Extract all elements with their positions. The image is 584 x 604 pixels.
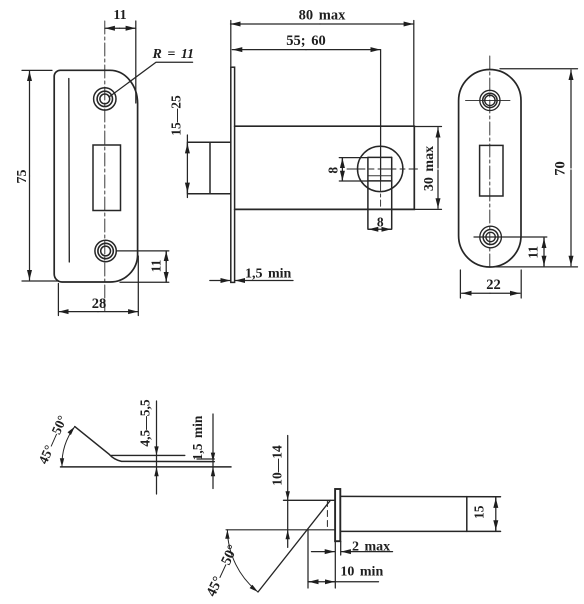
plate cutout	[93, 145, 121, 211]
VIEW C : face plate (right)	[459, 56, 578, 298]
face plate cross-section	[335, 489, 340, 541]
svg-text:2 max: 2 max	[352, 540, 390, 555]
dim 70	[496, 69, 578, 267]
svg-text:1,5 min: 1,5 min	[190, 415, 205, 460]
svg-text:15—25: 15—25	[169, 95, 184, 136]
bevel edge line	[75, 427, 215, 462]
label R = 11 with leader	[109, 47, 194, 97]
arc arrow top	[225, 530, 229, 539]
svg-text:75: 75	[15, 170, 30, 184]
svg-text:15: 15	[472, 505, 487, 519]
svg-text:45°—50°: 45°—50°	[35, 413, 70, 466]
svg-text:11: 11	[113, 8, 126, 23]
svg-text:10—14: 10—14	[269, 445, 284, 486]
angle arc 45-50	[227, 530, 258, 592]
svg-text:45°—50°: 45°—50°	[203, 542, 241, 599]
hub centerline horizontal	[347, 168, 418, 170]
arc arrow top	[68, 427, 75, 435]
svg-text:80 max: 80 max	[299, 8, 346, 24]
dim 22	[460, 270, 521, 298]
plate inner bend line	[68, 79, 71, 263]
screw hole bottom	[480, 226, 502, 248]
VIEW B : lock case (middle)	[169, 8, 442, 283]
svg-text:30 max: 30 max	[422, 146, 437, 191]
screw hole bottom	[95, 240, 116, 261]
hub centerline vertical	[380, 181, 382, 206]
bolt bar end	[466, 497, 468, 532]
dim 8 (square height, left)	[326, 158, 368, 181]
lip top line	[112, 454, 185, 456]
dim 4,5-5,5	[138, 399, 159, 494]
hidden bevel root line	[326, 501, 328, 530]
DETAIL D : lip detail (bottom left)	[35, 399, 231, 494]
dim 28	[58, 256, 138, 316]
VIEW A : strike plate (left)	[15, 8, 194, 316]
arc arrow bottom	[250, 585, 258, 592]
screw hole top	[94, 88, 116, 110]
plate outline (stadium)	[459, 69, 521, 266]
dim 2 max	[312, 540, 393, 556]
follower hub circle	[358, 146, 403, 191]
dim 80 max	[231, 8, 414, 126]
hole top cross line	[466, 99, 511, 101]
lock case body	[235, 126, 415, 209]
dim 15-25 (on bolt left edge)	[169, 95, 188, 198]
dim 8 (square width, bottom)	[368, 215, 392, 230]
svg-text:10 min: 10 min	[340, 565, 383, 580]
square inner line	[368, 175, 392, 177]
svg-text:8: 8	[377, 215, 384, 230]
svg-text:11: 11	[526, 246, 541, 259]
svg-text:70: 70	[553, 161, 569, 176]
bolt bar top	[341, 495, 501, 497]
svg-text:R = 11: R = 11	[152, 47, 195, 62]
svg-text:28: 28	[92, 296, 107, 312]
square spindle hole	[368, 157, 392, 228]
screw hole top	[480, 90, 500, 110]
centerline	[104, 21, 106, 311]
bolt bottom line extended left	[226, 529, 335, 531]
base line	[61, 466, 232, 468]
svg-text:11: 11	[148, 259, 163, 272]
latch bolt front	[187, 142, 230, 194]
latch cutout	[480, 145, 503, 196]
DETAIL E : latch bolt detail (bottom right)	[203, 436, 500, 600]
dim 55; 60	[232, 33, 380, 181]
dim 1,5 min	[190, 414, 215, 489]
svg-text:55; 60: 55; 60	[286, 33, 325, 49]
svg-text:22: 22	[486, 277, 501, 293]
bevel diagonal	[258, 500, 330, 592]
centerline	[489, 56, 491, 270]
bevel top line	[284, 499, 335, 501]
svg-text:8: 8	[326, 167, 341, 174]
dim 11 top	[105, 8, 136, 103]
dim 10-14	[269, 436, 290, 548]
dim 10 min	[308, 530, 383, 588]
bolt bar bottom	[341, 530, 501, 532]
dim 11 bottom right	[117, 251, 169, 282]
dim 30 max	[414, 127, 441, 210]
svg-text:4,5—5,5: 4,5—5,5	[138, 399, 153, 447]
dim 75	[15, 70, 58, 281]
angle arc 45-50	[62, 427, 75, 467]
plate outline	[54, 70, 137, 282]
svg-text:1,5 min: 1,5 min	[245, 267, 292, 282]
dim 15	[472, 497, 496, 531]
face plate strip	[231, 67, 235, 282]
dim 1,5 min (face plate thickness)	[210, 267, 293, 282]
arc arrow bottom	[60, 458, 64, 467]
dim 11 (bottom hole to edge)	[474, 237, 547, 267]
